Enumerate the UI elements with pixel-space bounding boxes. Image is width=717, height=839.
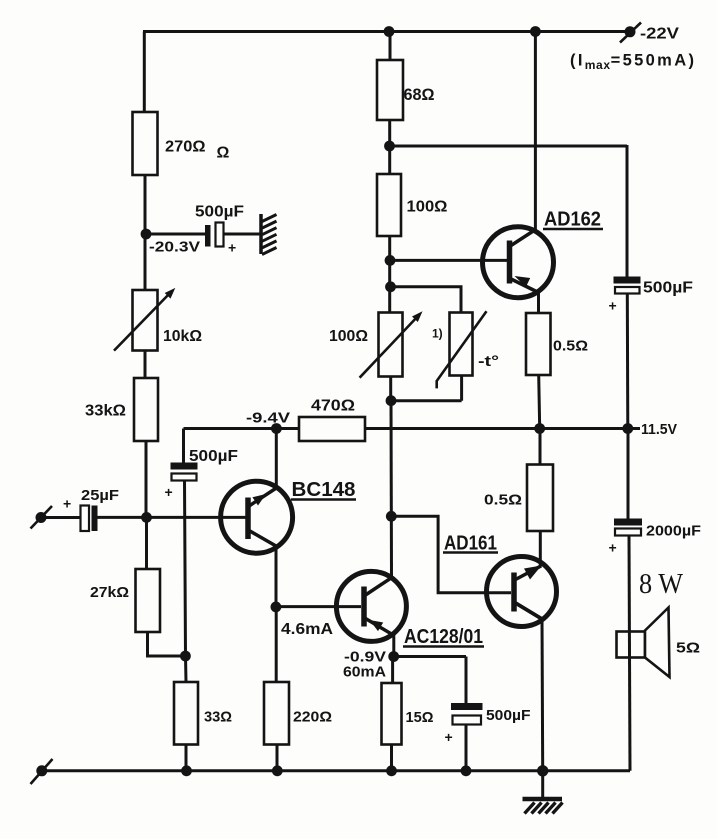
- svg-text:68Ω: 68Ω: [404, 85, 435, 104]
- terminal input: [36, 512, 47, 523]
- wire top -22V supply rail: [143, 30, 630, 33]
- capacitor C4 500uF plates: [614, 277, 641, 284]
- wire var bottom node down to AC128 collector: [390, 401, 394, 578]
- wire 33k to input node: [145, 441, 148, 517]
- wire C3 down through input line to 33ohm: [185, 481, 187, 683]
- resistor 0.5ohm upper: [526, 313, 551, 375]
- transistor BC148 base bar: [245, 498, 251, 540]
- resistor 10k potentiometer: [133, 290, 158, 351]
- node input: [141, 512, 152, 523]
- node 220ohm bottom: [272, 765, 283, 776]
- terminal bottom left: [36, 765, 47, 776]
- transistor AC128 base bar: [361, 587, 367, 627]
- terminal -22V: [625, 26, 636, 37]
- node -0.9V: [388, 651, 399, 662]
- node 33ohm bottom: [181, 765, 192, 776]
- wire -20.3V node to C1: [146, 233, 206, 236]
- chassis ground symbol: [259, 214, 263, 254]
- transistor AD162 base bar: [507, 241, 513, 284]
- svg-text:Ω: Ω: [217, 145, 230, 162]
- svg-text:AC128/01: AC128/01: [404, 626, 483, 648]
- wire var/thermistor bottom node: [391, 375, 462, 400]
- wire 100ohm to var resistor with nodes: [388, 236, 391, 313]
- wire thermistor top L: [391, 287, 462, 313]
- capacitor C3 500uF plates: [171, 463, 198, 470]
- svg-text:-9.4V: -9.4V: [246, 410, 290, 427]
- node AD161 base / AC128 collector: [386, 511, 397, 522]
- resistor 270ohm: [133, 112, 158, 175]
- wire 68ohm to 100ohm: [388, 120, 391, 174]
- resistor 33ohm: [174, 682, 198, 745]
- capacitor C2 25uF plates: [81, 506, 90, 532]
- wire BC148 top lead to -9.4V node: [275, 429, 278, 490]
- svg-text:0.5Ω: 0.5Ω: [553, 338, 588, 355]
- transistor AD162 emitter diagonal up: [511, 230, 536, 246]
- wire -9.4V line and 11.5V line: [184, 427, 641, 430]
- transistor Q2 AC128/01 body: [336, 571, 406, 641]
- resistor 15ohm: [382, 683, 402, 745]
- resistor 27k: [136, 569, 161, 632]
- svg-text:+: +: [63, 496, 71, 512]
- node top rail / 68ohm column: [384, 26, 395, 37]
- svg-text:33kΩ: 33kΩ: [85, 403, 126, 420]
- speaker 5ohm: [617, 632, 646, 658]
- svg-text:2000µF: 2000µF: [646, 523, 701, 540]
- wire -20.3V node to 10k pot: [144, 234, 147, 290]
- svg-text:100Ω: 100Ω: [329, 328, 368, 345]
- wire 27k bottom L to node: [148, 632, 186, 656]
- resistor 100ohm variable: [379, 313, 403, 377]
- transistor AC128 collector diagonal up: [366, 578, 392, 596]
- svg-text:-t°: -t°: [478, 353, 499, 370]
- wire AD162 base: [390, 259, 507, 262]
- node -9.4V: [271, 423, 282, 434]
- wire 11.5V node down to C5: [627, 429, 630, 519]
- svg-text:-20.3V: -20.3V: [149, 239, 200, 256]
- wire 0.5ohm lower to AD161 emitter lead: [539, 531, 542, 567]
- transistor AD161 collector diagonal down: [516, 603, 543, 619]
- wire -9.4V corner down to C3: [182, 429, 185, 463]
- node 15ohm bottom: [386, 765, 397, 776]
- wire C5 down to speaker and bottom rail: [629, 536, 630, 771]
- wire input terminal to C2: [41, 516, 81, 519]
- transistor BC148 collector diagonal down: [249, 531, 276, 547]
- node -20.3V: [141, 229, 152, 240]
- svg-text:+: +: [609, 540, 617, 556]
- svg-text:270Ω: 270Ω: [165, 139, 206, 156]
- capacitor C1 500uF plates: [205, 225, 211, 247]
- resistor 220ohm: [264, 682, 289, 745]
- wire 11.5V node to 0.5ohm lower: [539, 429, 542, 465]
- wire emitter node down to 220ohm: [275, 607, 278, 682]
- svg-text:5Ω: 5Ω: [676, 640, 700, 657]
- node var/thermistor bottom: [386, 395, 397, 406]
- resistor 33k: [134, 378, 158, 441]
- wire AC128 emitter lead to -0.9V node: [392, 635, 395, 657]
- svg-text:500µF: 500µF: [189, 448, 238, 465]
- svg-text:BC148: BC148: [292, 479, 356, 501]
- svg-text:60mA: 60mA: [343, 664, 386, 681]
- wire AD161 base L: [391, 516, 511, 593]
- transistor AD161 base bar: [511, 573, 517, 612]
- input terminal slash: [31, 506, 53, 529]
- svg-text:470Ω: 470Ω: [311, 398, 355, 415]
- svg-text:8 W: 8 W: [639, 568, 684, 600]
- resistor 470ohm: [299, 417, 365, 441]
- svg-text:+: +: [228, 240, 236, 256]
- svg-text:1): 1): [432, 327, 443, 341]
- resistor 0.5ohm lower: [527, 465, 553, 532]
- transistor Q3 AD162 body: [483, 227, 554, 298]
- wire C4 to 11.5V node: [626, 294, 630, 429]
- transistor BC148 emitter diagonal up: [249, 488, 276, 506]
- resistor 68ohm: [377, 60, 403, 120]
- node thermistor top branch: [385, 281, 396, 292]
- wire left column top: [143, 32, 146, 113]
- node 27k junction: [180, 651, 191, 662]
- wire 33ohm to bottom rail: [185, 745, 188, 771]
- wire C6 to bottom rail: [465, 725, 468, 771]
- svg-text:+: +: [445, 729, 453, 745]
- -22V terminal slash: [620, 23, 641, 43]
- transistor Q4 AD161 body: [487, 557, 557, 627]
- node AD162 base: [385, 255, 396, 266]
- wire AD162 emitter column from top rail: [534, 32, 537, 231]
- svg-text:220Ω: 220Ω: [293, 709, 332, 726]
- capacitor C6 500uF plates: [451, 703, 483, 710]
- bottom-left terminal slash: [31, 759, 53, 784]
- thermistor -t body: [450, 313, 473, 376]
- wire 220ohm to bottom rail: [276, 745, 279, 771]
- transistor AD161 emitter diagonal up with arrow: [516, 566, 542, 580]
- wire 10k to 33k: [144, 351, 147, 379]
- svg-text:27kΩ: 27kΩ: [90, 584, 129, 601]
- svg-text:4.6mA: 4.6mA: [281, 621, 333, 638]
- wire C1 to chassis: [224, 233, 261, 236]
- node top rail / AD162 emitter: [530, 26, 541, 37]
- resistor 100ohm mid: [377, 174, 401, 236]
- svg-text:15Ω: 15Ω: [406, 709, 434, 726]
- wire 15ohm to bottom rail: [390, 745, 393, 771]
- transistor Q1 BC148 body: [221, 481, 293, 553]
- node ground junction: [537, 765, 548, 776]
- capacitor C5 2000uF plates: [614, 519, 642, 526]
- wire right column top from 68 node corner down to C4: [626, 145, 629, 277]
- wire AD161 collector to bottom rail: [541, 618, 545, 771]
- node C6 bottom: [461, 765, 472, 776]
- wire bottom rail: [42, 769, 630, 772]
- svg-text:500µF: 500µF: [486, 707, 531, 724]
- svg-text:25µF: 25µF: [81, 487, 119, 504]
- wire -0.9V node right to C6: [394, 657, 466, 704]
- svg-text:500µF: 500µF: [643, 280, 693, 297]
- svg-text:100Ω: 100Ω: [407, 199, 448, 216]
- svg-text:+: +: [609, 298, 617, 314]
- wire input node down to 27k: [145, 517, 148, 569]
- svg-text:10kΩ: 10kΩ: [163, 328, 202, 345]
- wire -0.9V node down to 15ohm: [391, 657, 394, 684]
- svg-text:500µF: 500µF: [195, 204, 244, 221]
- node 11.5V left: [534, 423, 545, 434]
- wire BC148 bottom lead to emitter node: [275, 545, 278, 607]
- transistor AC128 emitter diagonal down with arrow: [366, 619, 395, 636]
- wire middle column from top rail to 68ohm: [389, 32, 392, 61]
- transistor AD162 collector diagonal down with arrow: [511, 279, 539, 293]
- ground symbol bar and hatches: [523, 797, 563, 802]
- node 11.5V right: [622, 423, 633, 434]
- wire 0.5ohm upper to 11.5V node: [539, 375, 540, 429]
- ground symbol stub: [541, 771, 544, 798]
- svg-text:33Ω: 33Ω: [204, 709, 232, 726]
- node 68ohm bottom: [384, 141, 395, 152]
- wire 68ohm node to right column: [390, 145, 628, 148]
- wire C2 to BC148 base: [98, 516, 249, 519]
- potentiometer 10k arrow head: [165, 288, 176, 299]
- transistor BC148 emitter arrow: [252, 494, 266, 506]
- wire emitter node to AC128 base: [276, 605, 361, 608]
- svg-text:11.5V: 11.5V: [641, 421, 677, 438]
- node BC148 emitter: [271, 602, 282, 613]
- wire 270ohm to -20.3V node: [144, 175, 147, 234]
- wire AD162 collector to 0.5ohm upper: [537, 292, 540, 314]
- svg-text:0.5Ω: 0.5Ω: [484, 492, 522, 509]
- svg-text:+: +: [165, 484, 173, 500]
- svg-text:AD162: AD162: [544, 209, 601, 231]
- svg-text:-22V: -22V: [640, 26, 679, 43]
